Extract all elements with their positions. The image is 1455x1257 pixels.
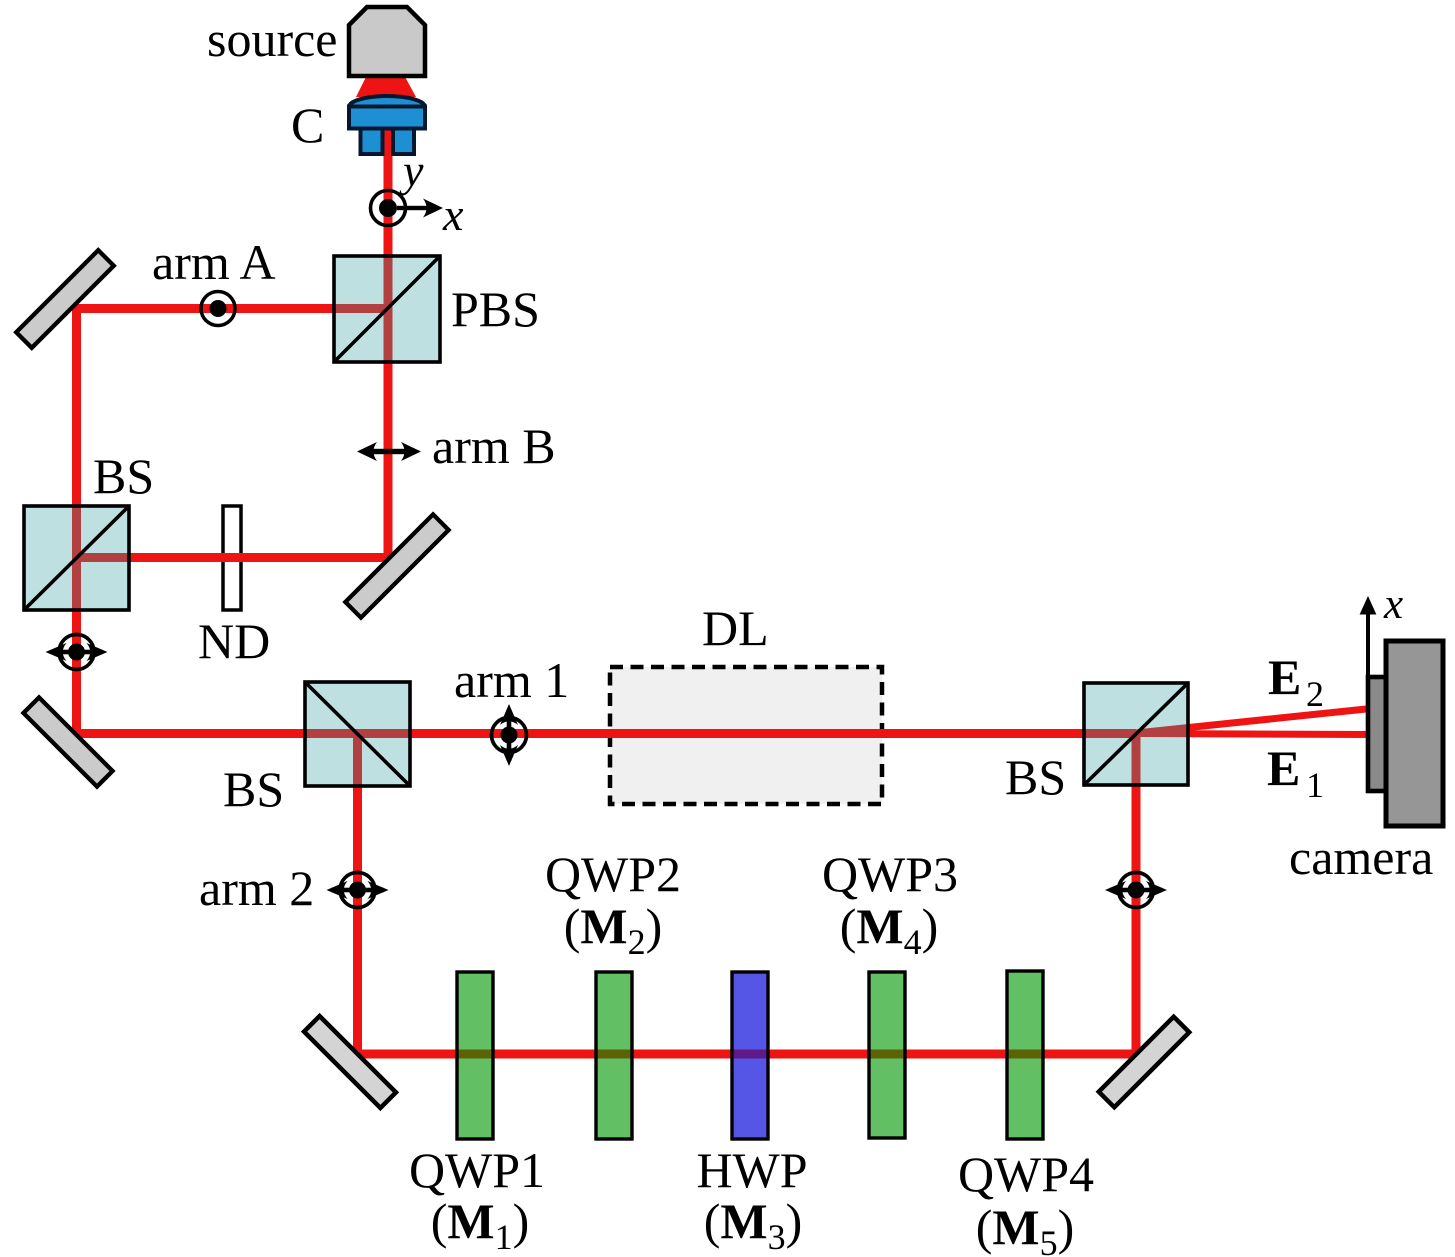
- op: collimator C feet: [361, 129, 383, 155]
- svg-text:BS: BS: [1005, 749, 1066, 805]
- svg-text:C: C: [291, 97, 324, 153]
- svg-text:arm 2: arm 2: [199, 860, 314, 916]
- wire: output beam E2: [1136, 709, 1371, 734]
- svg-text:QWP2: QWP2: [545, 846, 681, 902]
- svg-text:x: x: [442, 189, 464, 240]
- sym: double arrow on arm B: [357, 442, 421, 461]
- svg-text:(M2): (M2): [564, 898, 663, 962]
- svg-text:PBS: PBS: [451, 281, 540, 337]
- svg-text:camera: camera: [1289, 829, 1433, 885]
- svg-text:arm A: arm A: [152, 234, 276, 290]
- svg-text:QWP4: QWP4: [958, 1146, 1094, 1202]
- wire: beam cone from source to collimator: [356, 75, 416, 97]
- op: mirror bottom-left: [304, 1016, 396, 1108]
- svg-text:E: E: [1267, 740, 1300, 796]
- op: QWP2 plate: [596, 972, 632, 1139]
- op: collimator C body: [349, 107, 425, 129]
- svg-text:arm B: arm B: [432, 418, 556, 474]
- svg-text:(M5): (M5): [976, 1199, 1075, 1257]
- svg-text:2: 2: [1306, 674, 1324, 714]
- svg-text:HWP: HWP: [696, 1142, 807, 1198]
- op: BS cube center: [305, 682, 410, 786]
- op: BS cube left: [24, 506, 129, 610]
- sym: camera x axis arrow: [1360, 596, 1377, 678]
- op: mirror bottom-right: [1099, 1017, 1190, 1108]
- svg-text:(M4): (M4): [840, 898, 939, 962]
- svg-text:1: 1: [1306, 765, 1324, 805]
- svg-text:QWP3: QWP3: [822, 846, 958, 902]
- sym: polarization on arm 2: [327, 873, 389, 908]
- sym: circle-dot on arm A: [201, 292, 235, 326]
- op: QWP3 plate: [869, 972, 905, 1138]
- wire: arm 2 loop beam down through waveplates and back up: [358, 734, 1137, 1054]
- sym: coordinate frame circle-dot below C: [371, 191, 444, 226]
- svg-text:DL: DL: [702, 600, 769, 656]
- delay line DL dashed box: [610, 667, 882, 804]
- svg-text:BS: BS: [223, 761, 284, 817]
- op: mirror below PBS: [345, 514, 448, 617]
- svg-text:arm 1: arm 1: [454, 652, 569, 708]
- op: HWP beam crossing tint: [734, 1050, 766, 1059]
- sym: polarization right vertical arm: [1105, 873, 1167, 908]
- op: camera front plate: [1368, 677, 1390, 791]
- ND filter: [223, 506, 241, 610]
- svg-text:ND: ND: [198, 613, 270, 669]
- op: collimator C lens: [349, 96, 425, 118]
- svg-text:x: x: [1383, 581, 1403, 628]
- svg-text:y: y: [399, 145, 424, 196]
- op: mirror below BS left: [23, 697, 112, 786]
- svg-text:QWP1: QWP1: [409, 1142, 545, 1198]
- wire: arm A beam from PBS left to mirror, down through BS to mirror, right to BS3: [77, 309, 1137, 734]
- op: PBS cube: [334, 256, 440, 362]
- sym: polarization on arm 1 (vertical): [492, 704, 527, 766]
- op: camera body: [1386, 641, 1443, 826]
- op: source housing: [349, 7, 425, 76]
- svg-text:E: E: [1268, 649, 1301, 705]
- svg-text:(M1): (M1): [431, 1193, 530, 1257]
- svg-text:(M3): (M3): [704, 1193, 803, 1257]
- op: QWP4 plate: [1007, 971, 1043, 1139]
- op: QWP1 plate: [457, 972, 493, 1139]
- op: mirror top-left: [16, 250, 114, 348]
- svg-text:BS: BS: [93, 448, 154, 504]
- sym: polarization below BS left: [46, 635, 108, 670]
- svg-text:source: source: [207, 11, 338, 67]
- wire: beam from C down through PBS to mirror, then left to BS: [77, 128, 389, 558]
- op: BS cube right: [1084, 683, 1188, 785]
- op: HWP plate: [732, 972, 768, 1139]
- wire: output beam E1: [1136, 734, 1371, 735]
